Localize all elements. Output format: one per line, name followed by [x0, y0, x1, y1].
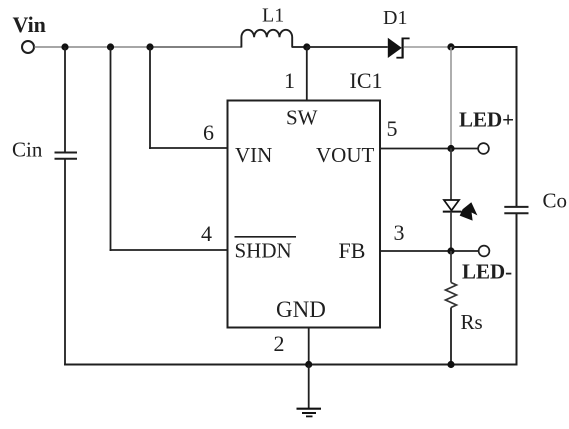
svg-text:VOUT: VOUT [316, 143, 374, 167]
node B junction dot [107, 43, 114, 50]
resistor Rs zigzag [446, 283, 457, 308]
wire node E to top-right corner [451, 46, 518, 48]
IC1 body rectangle [228, 101, 381, 328]
svg-text:6: 6 [203, 120, 214, 145]
node D junction dot (SW node) [303, 43, 310, 50]
wire node G down to Rs [450, 251, 452, 283]
wire top rail from node B to inductor [150, 46, 242, 48]
svg-text:5: 5 [387, 116, 398, 141]
terminal LED+ circle [478, 143, 489, 154]
wire Cin branch upper (node A down to Cin top plate) [64, 47, 66, 152]
node G junction dot [447, 247, 454, 254]
wire node F down to LED anode [450, 149, 452, 201]
node A junction dot [61, 43, 68, 50]
wire FB pin 3 horizontal [380, 250, 478, 252]
node I junction dot (Rs to bottom rail) [447, 361, 454, 368]
svg-text:Vin: Vin [13, 12, 46, 37]
wire VOUT pin 5 horizontal [380, 148, 478, 150]
wire SHDN branch horizontal to pin 4 [110, 249, 228, 251]
diode D1 (Schottky) [388, 38, 410, 59]
svg-text:Cin: Cin [12, 138, 43, 162]
svg-text:IC1: IC1 [350, 68, 383, 93]
capacitor Cin [55, 153, 78, 159]
svg-text:4: 4 [201, 221, 212, 246]
svg-text:FB: FB [339, 238, 366, 263]
node E junction dot [447, 43, 454, 50]
inductor L1 [241, 30, 292, 48]
wire right rail upper (corner down to Co) [516, 46, 518, 207]
svg-text:3: 3 [394, 220, 405, 245]
svg-text:2: 2 [274, 331, 285, 356]
wire right rail lower (Co down to bottom-right corner) [516, 214, 518, 366]
wire VIN branch horizontal to pin 6 [149, 147, 228, 149]
svg-text:LED-: LED- [462, 260, 512, 284]
wire Cin branch lower (Cin bottom plate to bottom rail) [64, 159, 66, 366]
wire SW pin 1 vertical (node D to IC top) [306, 47, 308, 101]
wire node E down to node F (gray) [450, 47, 452, 149]
LED D2 triangle [444, 200, 459, 210]
svg-text:Rs: Rs [461, 310, 483, 334]
ground symbol [297, 409, 322, 417]
wire top rail from Vin terminal to node B [35, 46, 151, 48]
node C junction dot [146, 43, 153, 50]
wire diode cathode to node E [404, 46, 451, 48]
LED emission arrow [460, 202, 478, 220]
wire LED cathode down to node G [450, 212, 452, 251]
svg-text:1: 1 [284, 68, 295, 93]
wire node D to diode anode [307, 46, 388, 48]
svg-text:D1: D1 [383, 7, 407, 29]
wire Rs to bottom rail [450, 308, 452, 366]
capacitor Co [504, 207, 528, 213]
wire ground stem [308, 365, 310, 409]
wire bottom rail [64, 364, 517, 366]
svg-text:L1: L1 [262, 5, 284, 27]
svg-text:VIN: VIN [235, 143, 272, 167]
svg-text:LED+: LED+ [459, 108, 514, 132]
svg-text:SHDN: SHDN [235, 239, 292, 263]
svg-text:SW: SW [286, 106, 318, 130]
node F junction dot [447, 145, 454, 152]
wire from inductor to node D [292, 46, 307, 48]
wire GND pin 2 vertical (IC bottom to bottom rail) [308, 328, 310, 365]
terminal LED- circle [479, 246, 490, 257]
LED D2 cathode bar [443, 211, 462, 213]
node H junction dot (ground node) [305, 361, 312, 368]
terminal Vin input circle [22, 41, 34, 53]
wire VIN branch vertical (node C down) [149, 47, 151, 149]
svg-text:GND: GND [276, 297, 326, 322]
wire SHDN branch vertical (node B down) [110, 47, 112, 251]
svg-text:Co: Co [543, 189, 568, 213]
